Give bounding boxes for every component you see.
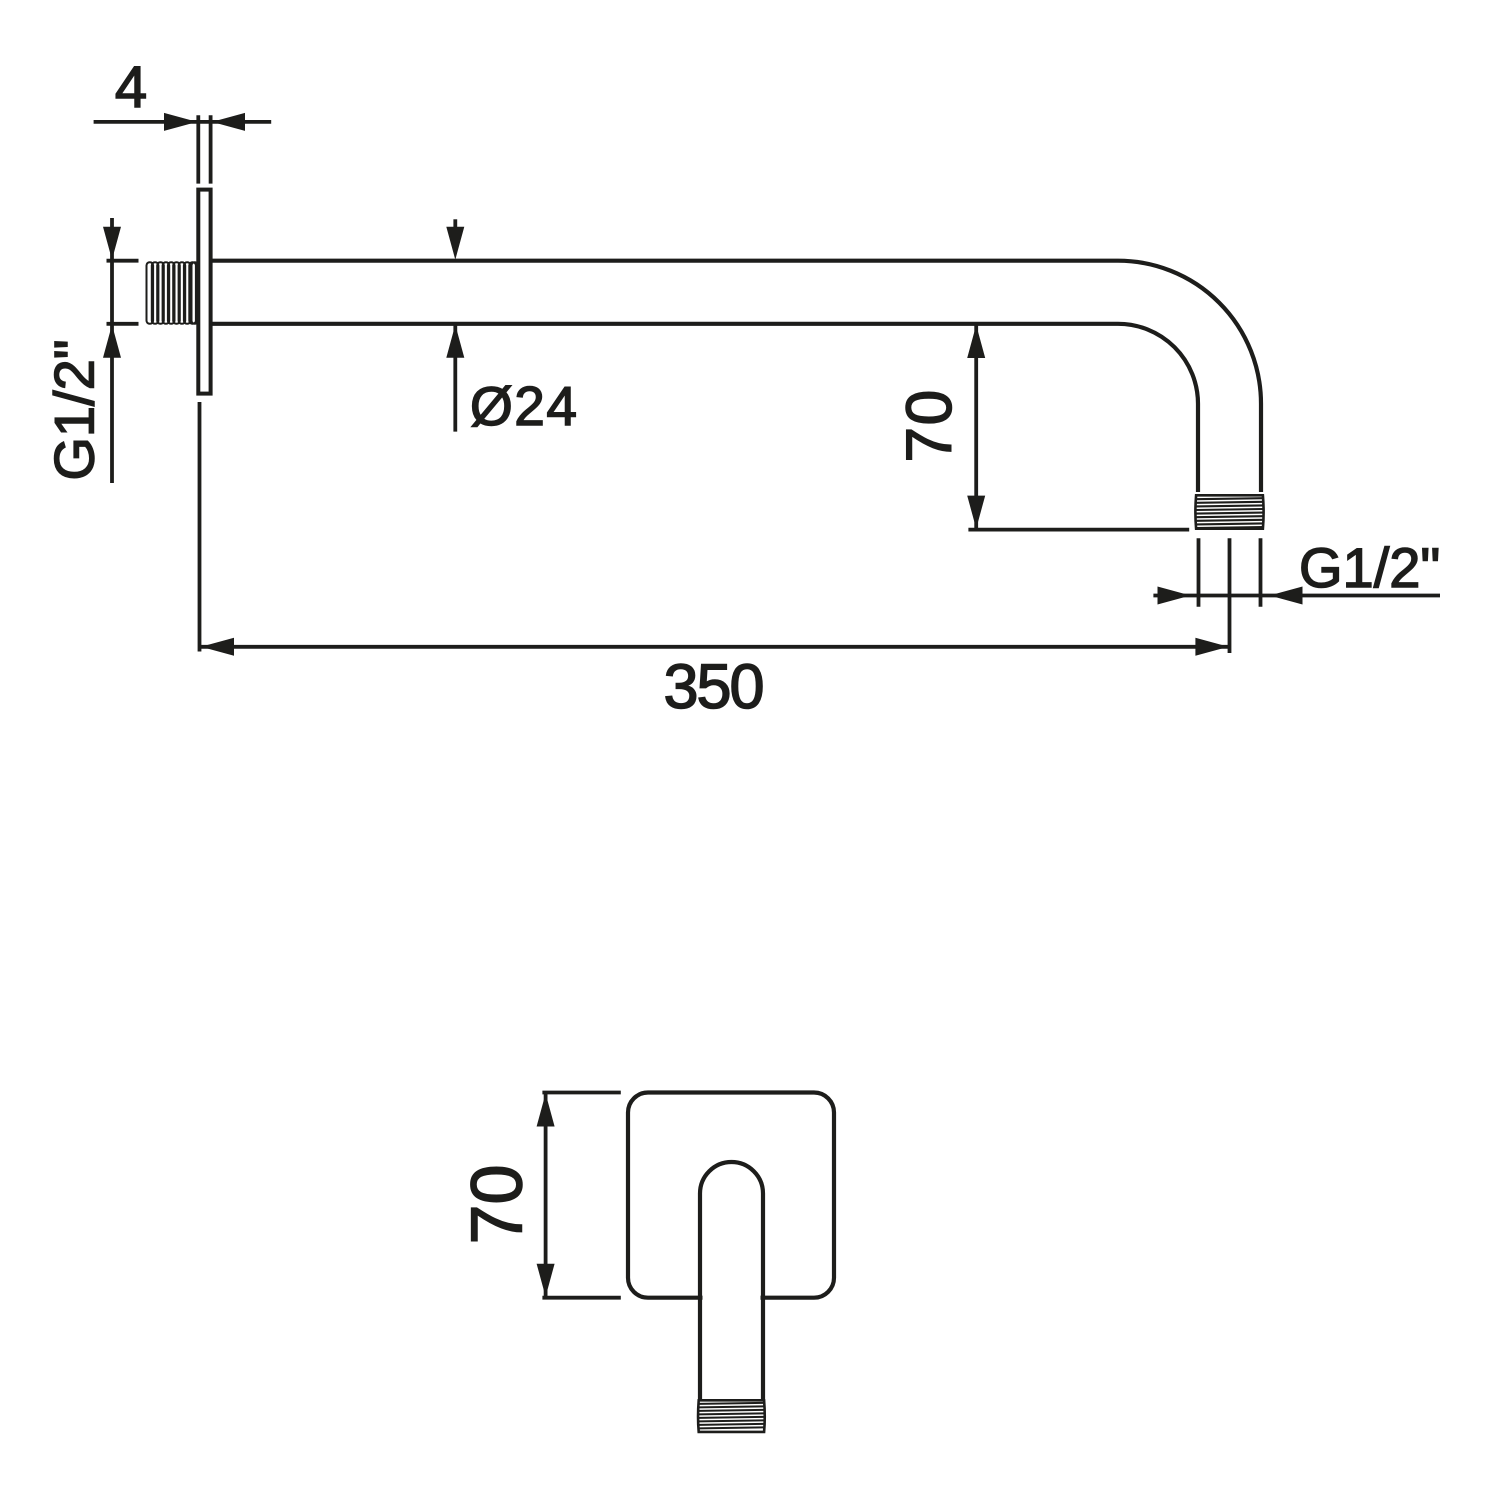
svg-text:4: 4 [115, 55, 147, 120]
svg-text:Ø24: Ø24 [470, 375, 578, 437]
svg-text:G1/2": G1/2" [43, 339, 106, 480]
dim 350: extension line below flange [198, 402, 202, 652]
dim G1/2 left: arrowheads [103, 227, 121, 358]
dim 4: arrowheads [164, 113, 245, 131]
dim G1/2 right: arrowheads [1158, 587, 1303, 605]
dim G1/2 right: extension lines [1199, 538, 1261, 653]
dim 350: arrowheads [201, 638, 1228, 656]
white gap in square bottom edge where arm passes [703, 1289, 761, 1306]
dim 70 top view: dimension line [974, 324, 978, 530]
dim O24: lower arrow line [453, 324, 457, 432]
dim G1/2 right: dimension line [1153, 594, 1440, 598]
left thread nipple G1/2 [147, 262, 199, 324]
dim 4: dimension line [94, 120, 272, 124]
svg-text:70: 70 [458, 1164, 538, 1244]
dim 70 bottom view: arrowheads [537, 1094, 555, 1297]
svg-text:350: 350 [663, 652, 762, 722]
wall flange plate (side view) [198, 190, 210, 394]
arm front view (U shape) [700, 1162, 763, 1399]
dim O24: upper arrow line [453, 219, 457, 234]
escutcheon square (front view) [628, 1093, 834, 1298]
shower arm tube outline (side view) [211, 261, 1261, 492]
dim 70 bottom view: tick lines [542, 1093, 620, 1298]
right thread end G1/2 (side view) [1196, 498, 1263, 528]
bottom thread end G1/2 (front view) [699, 1403, 764, 1429]
dim 4: extension lines above flange [198, 115, 210, 183]
dim 70 top view: arrowheads [967, 325, 985, 529]
dim G1/2 left: dimension line [110, 218, 114, 483]
dim O24: arrowheads [446, 227, 464, 358]
dim G1/2 left: tick lines [107, 261, 139, 324]
svg-text:70: 70 [893, 388, 965, 462]
dim 70 bottom view: dimension line [544, 1093, 548, 1298]
dim 70 top view: extension line at arm end [968, 528, 1189, 532]
svg-text:G1/2": G1/2" [1299, 536, 1440, 599]
dim 350: dimension line [201, 645, 1229, 649]
